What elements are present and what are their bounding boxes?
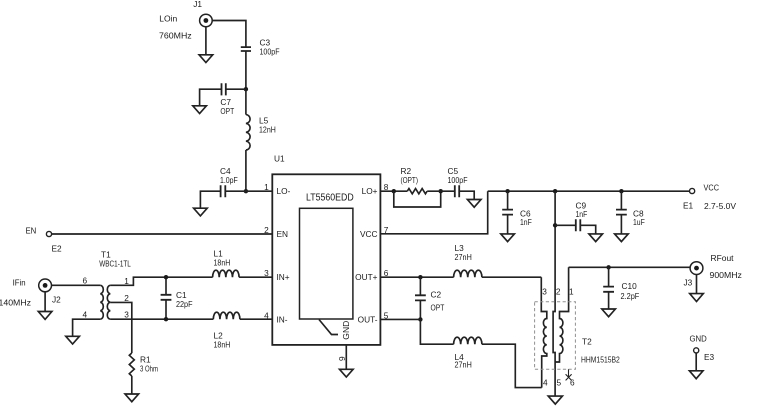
- wire L2 to pin 4: [240, 318, 272, 320]
- svg-text:18nH: 18nH: [214, 340, 231, 350]
- node C1 bottom junction: [164, 317, 168, 321]
- svg-text:(OPT): (OPT): [401, 175, 419, 185]
- wire EN to pin 2: [52, 233, 273, 235]
- ground C4: [194, 208, 208, 216]
- ground pin 9: [340, 369, 354, 377]
- wire C5 to ground: [459, 191, 474, 199]
- svg-text:2: 2: [556, 287, 561, 297]
- svg-text:6: 6: [570, 378, 575, 388]
- svg-text:5: 5: [384, 310, 389, 320]
- svg-text:1nF: 1nF: [576, 209, 588, 219]
- wire C10 top stub: [608, 267, 610, 286]
- node C1 top junction: [164, 275, 168, 279]
- svg-text:OUT+: OUT+: [355, 272, 378, 282]
- wire R1 to ground: [131, 376, 133, 394]
- wire L1 to pin 3: [239, 276, 272, 278]
- wire RFout: [569, 266, 691, 268]
- wire E3 ground stub: [695, 353, 697, 371]
- wire C3 to node A: [245, 51, 247, 89]
- connector J3: [690, 262, 703, 275]
- svg-text:100pF: 100pF: [260, 47, 280, 57]
- transformer T1 primary winding: [100, 285, 103, 319]
- svg-text:J2: J2: [52, 294, 61, 304]
- capacitor C2: [415, 295, 426, 300]
- svg-text:3 Ohm: 3 Ohm: [140, 364, 158, 374]
- wire node A to L5: [245, 89, 247, 114]
- svg-text:VCC: VCC: [360, 229, 378, 239]
- node C6 junction: [505, 189, 509, 193]
- op-amp U1 outer body: [272, 174, 380, 345]
- wire pin 7 VCC riser: [380, 191, 487, 234]
- wire R2 bypass loop: [394, 191, 441, 207]
- connector J2: [39, 279, 52, 292]
- svg-text:27nH: 27nH: [455, 360, 472, 370]
- node C9 junction: [553, 223, 557, 227]
- capacitor C7: [222, 83, 226, 95]
- wire C8 top stub: [620, 191, 622, 209]
- ground C10: [602, 309, 616, 317]
- wire C1 top stub: [165, 277, 167, 295]
- wire C9 left stub: [555, 224, 576, 226]
- wire J2 ground stub: [44, 292, 46, 312]
- capacitor C9: [576, 219, 581, 231]
- wire C10 bottom stub: [608, 292, 610, 309]
- svg-text:WBC1-1TL: WBC1-1TL: [99, 259, 131, 269]
- svg-text:2.7-5.0V: 2.7-5.0V: [704, 201, 736, 211]
- capacitor C3: [241, 47, 251, 51]
- wire C2 top stub: [419, 277, 421, 295]
- capacitor C5: [455, 185, 459, 197]
- svg-text:IFin: IFin: [13, 277, 26, 287]
- svg-text:9: 9: [337, 356, 347, 361]
- svg-text:U1: U1: [274, 154, 285, 164]
- wire L3 to T2 pin 3: [482, 276, 541, 278]
- node T2 feed junction: [553, 189, 557, 193]
- wire R2 to C5: [427, 190, 455, 192]
- svg-text:4: 4: [83, 309, 88, 319]
- wire J3 ground stub: [696, 275, 698, 294]
- svg-text:EN: EN: [277, 229, 289, 239]
- svg-text:LO-: LO-: [277, 186, 291, 196]
- svg-text:LO+: LO+: [362, 186, 378, 196]
- wire VCC to T2 pin 2 and pin 5 ground: [553, 191, 555, 396]
- svg-text:IN+: IN+: [277, 272, 290, 282]
- svg-text:12nH: 12nH: [259, 125, 276, 135]
- svg-text:8: 8: [384, 182, 389, 192]
- terminal E1: [690, 188, 695, 193]
- wire J1 ground stub: [205, 27, 207, 55]
- node R2 left junction: [392, 189, 396, 193]
- capacitor C10: [603, 287, 614, 292]
- wire C7 left to ground: [200, 89, 222, 106]
- svg-text:J1: J1: [193, 0, 202, 9]
- node C8 junction: [619, 189, 623, 193]
- svg-text:OUT-: OUT-: [358, 314, 378, 324]
- svg-text:22pF: 22pF: [176, 299, 193, 309]
- svg-text:C2: C2: [431, 290, 442, 300]
- svg-text:VCC: VCC: [704, 183, 720, 193]
- wire T1 pin 2 to R1: [110, 302, 131, 353]
- svg-text:LOin: LOin: [159, 13, 177, 23]
- svg-text:C10: C10: [622, 281, 638, 291]
- svg-text:J3: J3: [684, 277, 693, 287]
- svg-text:1: 1: [264, 182, 269, 192]
- resistor R1: [129, 353, 134, 376]
- wire L4 to T2 pin 4: [482, 344, 542, 387]
- svg-text:27nH: 27nH: [455, 252, 472, 262]
- svg-text:RFout: RFout: [711, 253, 735, 263]
- wire T1 pin 1 to IN+: [110, 277, 212, 285]
- svg-text:6: 6: [83, 276, 88, 286]
- svg-text:E1: E1: [683, 201, 694, 211]
- svg-text:3: 3: [264, 268, 269, 278]
- wire C8 bottom stub: [620, 215, 622, 234]
- U1 exposed pad lead: [319, 320, 338, 335]
- svg-text:1: 1: [569, 287, 574, 297]
- svg-text:E3: E3: [704, 352, 715, 362]
- capacitor C4: [221, 185, 226, 197]
- node C2 bottom junction: [418, 317, 422, 321]
- wire T2 pin 6 stub: [568, 369, 570, 377]
- ground C5: [467, 200, 481, 208]
- ground C8: [615, 234, 629, 242]
- inductor L1: [213, 270, 239, 277]
- svg-text:140MHz: 140MHz: [0, 297, 31, 307]
- capacitor C8: [616, 210, 627, 215]
- capacitor C1: [161, 295, 172, 300]
- inductor L2: [213, 312, 240, 319]
- wire C4 to pin 1: [225, 190, 272, 192]
- wire C4 left to ground: [200, 191, 220, 208]
- wire L5 to LO- node: [245, 150, 247, 191]
- ground C6: [501, 234, 515, 242]
- node LO- junction: [244, 189, 248, 193]
- U1 inner pad box: [300, 208, 353, 319]
- svg-text:GND: GND: [690, 334, 707, 344]
- svg-text:5: 5: [557, 377, 562, 387]
- ground J1: [199, 55, 213, 63]
- svg-text:1: 1: [124, 276, 129, 286]
- svg-text:1nF: 1nF: [520, 217, 532, 227]
- wire pin 5 OUT- to L4: [380, 319, 453, 344]
- wire pin 9 stub: [345, 345, 347, 369]
- ground J2: [38, 312, 52, 320]
- svg-text:1.0pF: 1.0pF: [220, 175, 238, 185]
- ground T1 pin 4: [66, 336, 80, 344]
- svg-text:LT5560EDD: LT5560EDD: [306, 193, 354, 204]
- svg-text:2: 2: [124, 293, 129, 303]
- svg-text:HHM1515B2: HHM1515B2: [581, 355, 620, 365]
- wire T1 pin 4 to ground: [73, 319, 101, 336]
- node R2 right junction: [439, 189, 443, 193]
- svg-text:3: 3: [542, 287, 547, 297]
- ground E3: [689, 371, 703, 379]
- inductor L3: [454, 270, 482, 277]
- wire C1 bottom stub: [165, 300, 167, 319]
- svg-text:1uF: 1uF: [633, 217, 645, 227]
- svg-text:4: 4: [264, 310, 269, 320]
- inductor L5: [246, 115, 250, 150]
- svg-text:18nH: 18nH: [214, 258, 231, 268]
- wire pin 6 OUT+: [380, 276, 453, 278]
- svg-text:7: 7: [384, 225, 389, 235]
- no-connect X on pin 6: [566, 374, 572, 380]
- terminal E2: [46, 231, 51, 236]
- svg-text:E2: E2: [52, 244, 63, 254]
- ground C7: [193, 106, 207, 114]
- svg-text:760MHz: 760MHz: [159, 30, 192, 40]
- svg-text:6: 6: [384, 268, 389, 278]
- capacitor C6: [502, 210, 513, 215]
- svg-text:2.2pF: 2.2pF: [621, 291, 640, 301]
- wire IFin to T1 pin 6: [52, 284, 101, 286]
- resistor R2: [407, 189, 427, 194]
- ground T2 pin 5: [548, 396, 562, 404]
- wire pin 8 LO+: [380, 190, 407, 192]
- svg-text:3: 3: [124, 310, 129, 320]
- inductor L4: [454, 337, 482, 344]
- transformer T2 dashed outline: [535, 302, 576, 370]
- node C2 top junction: [418, 275, 422, 279]
- wire VCC rail: [488, 190, 690, 192]
- svg-text:EN: EN: [26, 226, 37, 236]
- node A junction: [244, 87, 248, 91]
- svg-text:900MHz: 900MHz: [710, 270, 742, 280]
- ground C9: [589, 234, 603, 242]
- svg-text:OPT: OPT: [220, 106, 234, 116]
- wire C9 to ground: [580, 225, 595, 234]
- svg-text:T2: T2: [582, 337, 592, 347]
- wire J1 to C3: [212, 21, 246, 48]
- svg-text:100pF: 100pF: [448, 175, 468, 185]
- wire C2 bottom stub: [419, 300, 421, 319]
- svg-text:IN-: IN-: [277, 314, 288, 324]
- transformer T2 pin 3 and primary winding to pin 4: [541, 277, 547, 387]
- terminal E3: [694, 348, 699, 353]
- transformer T1 secondary winding: [107, 285, 110, 319]
- svg-text:GND: GND: [341, 321, 351, 340]
- svg-text:4: 4: [543, 377, 548, 387]
- connector J1: [200, 14, 213, 27]
- ground R1: [125, 394, 139, 402]
- wire C6 bottom stub: [507, 215, 509, 234]
- wire C6 top stub: [507, 191, 509, 209]
- wire T1 pin 3 IN-: [110, 318, 213, 320]
- wire C7 right: [226, 88, 246, 90]
- ground J3: [690, 294, 704, 302]
- node C10 junction: [606, 265, 610, 269]
- svg-text:2: 2: [264, 225, 269, 235]
- transformer T2 pin 1 and secondary winding: [555, 267, 569, 362]
- svg-text:OPT: OPT: [431, 303, 445, 313]
